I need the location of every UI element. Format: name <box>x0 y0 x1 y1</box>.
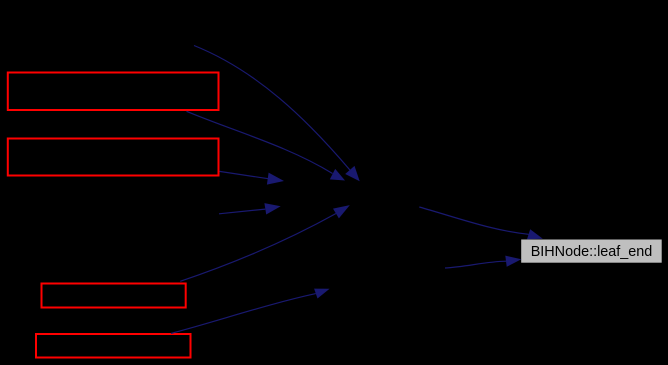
node BIHNode::leaf_end (gray, current) <box>521 240 662 263</box>
arrowhead H <box>264 203 280 214</box>
edge D: lower invisible node to BIHNode::leaf_end <box>445 261 506 268</box>
edge G: box2 to mid invisible node (short) <box>220 171 269 178</box>
arrowhead B <box>330 169 345 181</box>
node box1 (red, truncated caller, top-left) <box>8 73 219 111</box>
edge B: box1 to center node <box>187 111 333 173</box>
arrowhead D <box>505 256 521 267</box>
arrowhead A <box>345 166 360 181</box>
arrowhead G <box>267 173 284 185</box>
node box3 (red, truncated caller, lower) <box>42 284 186 308</box>
node box2 (red, truncated caller, second) <box>8 139 219 176</box>
arrowhead E <box>333 205 350 218</box>
edge C: center node to BIHNode::leaf_end <box>419 207 528 234</box>
arrowhead F <box>314 289 330 299</box>
edge A: top invisible node to center node (curved) <box>194 46 350 171</box>
edge E: box3 to center node (curved) <box>180 214 336 282</box>
node box4 (red, truncated caller, bottom) <box>36 334 191 358</box>
edge F: box4 to lower invisible node <box>171 294 316 334</box>
edge H: left invisible node to mid invisible node (short) <box>219 209 265 214</box>
arrowhead C <box>527 229 543 239</box>
svg-text:BIHNode::leaf_end: BIHNode::leaf_end <box>531 244 653 260</box>
